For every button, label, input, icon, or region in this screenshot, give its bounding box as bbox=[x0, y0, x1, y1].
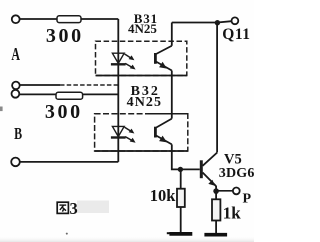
svg-text:1k: 1k bbox=[223, 204, 242, 223]
wire B+ input to R2 bbox=[19, 93, 118, 95]
value label 10k bbox=[150, 186, 177, 205]
caption 图3 bbox=[57, 199, 78, 218]
resistor R3 10k bbox=[177, 189, 185, 207]
terminal Q11 bbox=[232, 17, 239, 24]
label B32 bbox=[131, 84, 160, 99]
wire base node to V5 bbox=[180, 168, 199, 170]
terminal B+ bbox=[12, 90, 20, 98]
terminal A+ bbox=[12, 15, 20, 23]
LED of B32 bbox=[111, 126, 126, 137]
light arrows of B31 bbox=[125, 54, 136, 70]
ground (R4) bbox=[204, 233, 227, 237]
svg-text:300: 300 bbox=[45, 101, 83, 123]
svg-text:3: 3 bbox=[70, 199, 78, 218]
label B bbox=[14, 124, 22, 143]
wire A- return from LED B31 cathode bbox=[20, 84, 119, 86]
label Q11 bbox=[222, 26, 250, 43]
label V5 bbox=[224, 152, 242, 168]
terminal A- bbox=[12, 82, 20, 90]
light arrows of B32 bbox=[125, 127, 136, 143]
wire Q11 bus down to V5 collector bbox=[216, 23, 218, 153]
label P bbox=[243, 192, 252, 207]
wire emitter to P terminal bbox=[216, 190, 233, 192]
wire collector chain vertical (B31 collector / B32 emitter chain) bbox=[172, 23, 181, 170]
transistor V5 bbox=[201, 153, 217, 187]
wire V5 emitter node bbox=[215, 186, 217, 199]
value label 300 (R2) bbox=[45, 101, 83, 123]
svg-text:10k: 10k bbox=[150, 186, 177, 205]
phototransistor of B32 bbox=[155, 119, 171, 145]
junction base node bbox=[178, 167, 183, 172]
wire A+ input to R1 and LED B31 anode bbox=[20, 18, 119, 20]
svg-text:3DG6: 3DG6 bbox=[219, 166, 254, 181]
terminal P bbox=[233, 188, 240, 195]
terminal B- bbox=[11, 158, 20, 167]
noise speck bbox=[66, 233, 68, 235]
LED of B31 bbox=[111, 53, 126, 64]
resistor R4 1k bbox=[212, 199, 220, 220]
junction top bus bbox=[215, 20, 220, 25]
resistor R2 300 bbox=[56, 92, 83, 99]
optocoupler B32 box bbox=[95, 114, 188, 151]
wire top bus to Q11 bbox=[172, 21, 232, 22]
junction emitter node bbox=[213, 188, 219, 194]
svg-text:A: A bbox=[11, 44, 20, 64]
ground (R3) bbox=[167, 231, 193, 235]
optocoupler B31 box bbox=[96, 41, 187, 75]
svg-text:B: B bbox=[14, 124, 22, 143]
value label 4N25 (B31) bbox=[128, 21, 157, 36]
svg-text:P: P bbox=[243, 192, 252, 207]
value label 300 (R1) bbox=[46, 25, 84, 47]
svg-text:4N25: 4N25 bbox=[127, 95, 163, 110]
svg-text:4N25: 4N25 bbox=[128, 21, 157, 36]
label A bbox=[11, 44, 20, 64]
wire R3 to ground bbox=[180, 207, 182, 233]
svg-text:Q11: Q11 bbox=[222, 26, 250, 43]
phototransistor of B31 bbox=[155, 46, 171, 71]
svg-text:V5: V5 bbox=[224, 152, 242, 168]
wire R4 to ground bbox=[215, 221, 217, 234]
wire V5 base resistor drop bbox=[180, 169, 182, 188]
wire LED chain vertical (B31 anode through B32 cathode) bbox=[117, 19, 119, 162]
svg-text:300: 300 bbox=[46, 25, 84, 47]
value label 4N25 (B32) bbox=[127, 95, 163, 110]
value label 1k bbox=[223, 204, 242, 223]
resistor R1 300 bbox=[57, 16, 81, 23]
wire B- return from LED B32 cathode bbox=[20, 161, 119, 163]
value label 3DG6 bbox=[219, 166, 255, 181]
label B31 bbox=[134, 11, 158, 26]
